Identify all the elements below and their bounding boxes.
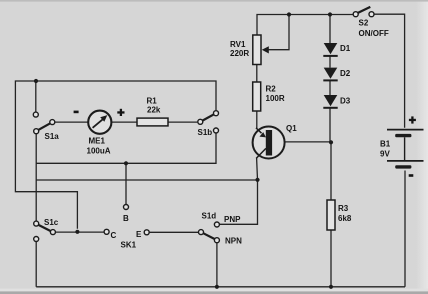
label C [111, 231, 117, 240]
svg-text:D1: D1 [340, 44, 351, 53]
label R1 22k [147, 97, 161, 115]
wire R2 to Q1 emitter [256, 111, 258, 128]
diode D3 [323, 95, 337, 109]
svg-text:D3: D3 [340, 97, 351, 106]
node top rail / diode chain [328, 12, 332, 16]
switch S1d [199, 222, 220, 243]
svg-text:ME1: ME1 [89, 137, 106, 146]
wire S1a pole down to S1c pole [35, 134, 37, 221]
wire top rail [257, 15, 355, 36]
label D1 [340, 44, 351, 53]
diode D1 [323, 43, 337, 57]
label S1a [45, 132, 60, 141]
transistor Q1 [253, 127, 285, 159]
svg-text:S2: S2 [359, 19, 369, 28]
label E [136, 230, 142, 239]
svg-text:RV1: RV1 [230, 40, 246, 49]
label minus [74, 111, 79, 114]
svg-text:D2: D2 [340, 69, 351, 78]
label R2 100R [266, 85, 285, 104]
svg-text:NPN: NPN [225, 237, 242, 246]
battery B1 [387, 130, 424, 169]
label S2 ON/OFF [359, 19, 389, 39]
wire top line to S1b top contact [36, 81, 216, 110]
node bottom rail / R3 [329, 285, 333, 289]
wire Q1 collector to PNP contact [220, 158, 258, 224]
meter ME1 [88, 111, 111, 134]
label D2 [340, 69, 351, 78]
terminal C [104, 229, 109, 234]
terminal E [144, 230, 149, 235]
svg-text:100uA: 100uA [87, 147, 111, 156]
wire B terminal [125, 163, 127, 204]
wire meter plus to R1 [111, 121, 137, 123]
wire R3 to bottom rail [330, 230, 332, 286]
svg-text:100R: 100R [266, 94, 285, 103]
svg-text:B1: B1 [380, 140, 391, 149]
wire NPN contact to bottom rail [216, 243, 218, 287]
svg-text:S1b: S1b [198, 128, 213, 137]
wire S1a top contact up [35, 81, 37, 112]
node C wire / left loop [75, 230, 79, 234]
wire D3 node to R3 [330, 142, 332, 200]
wire RV1 wiper [267, 15, 289, 50]
resistor R1 [137, 118, 168, 126]
potentiometer RV1 [253, 35, 269, 65]
label battery plus [409, 116, 416, 123]
svg-text:22k: 22k [147, 106, 161, 115]
switch S1b [198, 111, 219, 133]
node D3 / Q1 base / R3 [329, 140, 333, 144]
diode D2 [323, 68, 337, 82]
svg-text:ON/OFF: ON/OFF [359, 29, 389, 38]
wire S2 to battery plus [374, 14, 404, 128]
label plus [117, 109, 124, 116]
wire RV1 bottom to R2 [256, 65, 258, 83]
resistor R2 [253, 82, 261, 111]
svg-text:220R: 220R [230, 49, 249, 58]
wire Q1 base to node D3/R3 [272, 141, 332, 143]
wire left loop C-net to top line [15, 81, 77, 229]
node top line / S1a contact [34, 79, 38, 83]
label battery minus [409, 174, 414, 177]
wire S1a contact to meter minus [55, 121, 88, 123]
switch S1a [33, 112, 55, 134]
svg-text:PNP: PNP [224, 215, 241, 224]
svg-text:S1c: S1c [44, 218, 59, 227]
svg-text:SK1: SK1 [121, 241, 137, 250]
svg-text:R1: R1 [147, 97, 158, 106]
label NPN [225, 237, 242, 246]
label R3 6k8 [338, 204, 352, 223]
svg-text:E: E [136, 230, 142, 239]
label B [123, 214, 129, 223]
wire S1c open contact to bottom rail [35, 242, 37, 287]
switch S1c [34, 221, 56, 241]
label PNP [224, 215, 241, 224]
switch S2 [353, 7, 374, 17]
wire E contact to S1d pole [150, 231, 199, 233]
wire battery minus to bottom rail [404, 171, 406, 287]
label S1c [44, 218, 59, 227]
label RV1 220R [230, 40, 249, 58]
terminal B [124, 205, 129, 210]
wire bottom rail [36, 286, 405, 288]
svg-text:B: B [123, 214, 129, 223]
resistor R3 [327, 200, 335, 230]
svg-text:Q1: Q1 [286, 124, 297, 133]
node bottom rail / NPN [215, 285, 219, 289]
node line B / Q1 collector [255, 178, 259, 182]
label SK1 [121, 241, 137, 250]
svg-text:6k8: 6k8 [338, 214, 352, 223]
node line A / B terminal [124, 161, 128, 165]
label ME1 100uA [87, 137, 111, 156]
label D3 [340, 97, 351, 106]
svg-text:9V: 9V [380, 150, 390, 159]
wire R1 to S1b pole [168, 121, 197, 123]
svg-text:C: C [111, 231, 117, 240]
wire S1c arm contact to C contact [56, 231, 104, 233]
wire diode chain D1-D3 [329, 15, 331, 143]
svg-text:R2: R2 [266, 85, 277, 94]
node top rail / wiper [287, 12, 291, 16]
label S1b [198, 128, 213, 137]
svg-text:R3: R3 [338, 204, 349, 213]
label S1d [202, 212, 217, 221]
wire line A to S1b bottom contact [36, 133, 216, 163]
label Q1 [286, 124, 297, 133]
label B1 9V [380, 140, 391, 159]
svg-text:S1a: S1a [45, 132, 60, 141]
svg-text:S1d: S1d [202, 212, 217, 221]
wire line B to Q1 collector net [36, 179, 257, 181]
